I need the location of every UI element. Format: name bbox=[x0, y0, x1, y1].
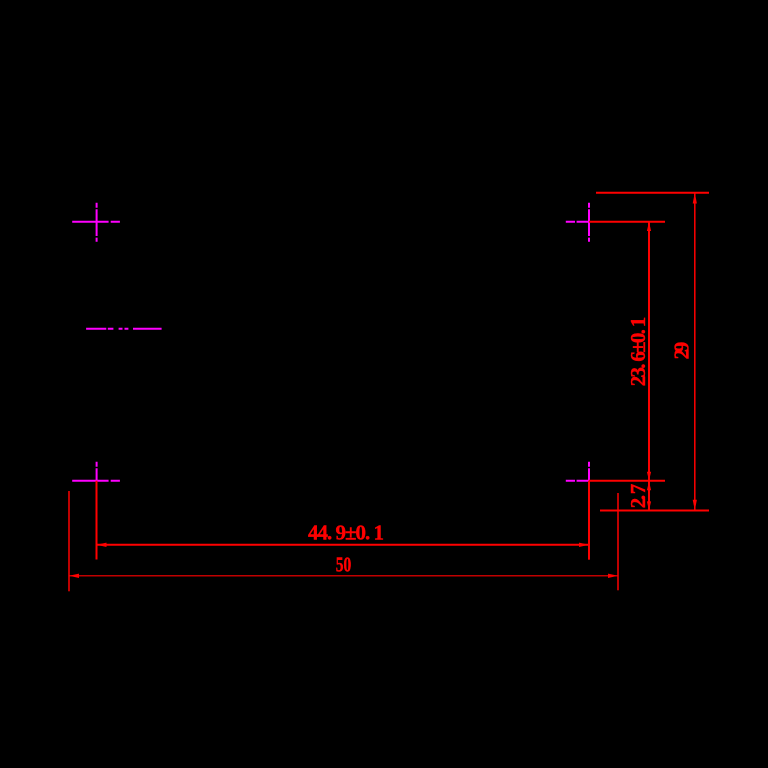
svg-text:44. 9±0. 1: 44. 9±0. 1 bbox=[308, 521, 384, 545]
svg-text:50: 50 bbox=[336, 553, 352, 576]
svg-text:2. 7: 2. 7 bbox=[626, 484, 650, 509]
svg-text:23. 6±0. 1: 23. 6±0. 1 bbox=[626, 317, 650, 387]
svg-text:29: 29 bbox=[670, 342, 694, 360]
